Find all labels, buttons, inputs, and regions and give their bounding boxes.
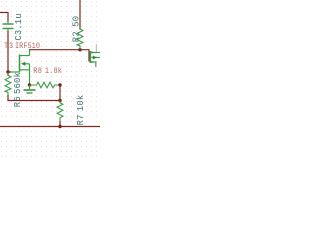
svg-text:50: 50 — [71, 16, 81, 27]
arrow pins of T4 — [91, 51, 97, 63]
wire R7 bottom — [59, 121, 61, 127]
wire bottom rail — [0, 126, 100, 128]
wire R6 bottom rail — [8, 95, 60, 101]
svg-text:R6: R6 — [13, 96, 23, 107]
wire top rail drain — [29, 50, 89, 62]
node bottom rail junction — [58, 125, 61, 128]
transistor T4 right — [90, 44, 100, 67]
wire gate — [8, 71, 20, 73]
label R6 560k — [13, 72, 23, 107]
node gate junction — [6, 70, 9, 73]
transistor T3 — [20, 50, 30, 85]
node R8 corner — [58, 83, 61, 86]
svg-text:R2: R2 — [71, 31, 81, 42]
svg-text:R8: R8 — [33, 68, 42, 77]
svg-text:C3: C3 — [14, 30, 24, 41]
svg-text:.1u: .1u — [14, 13, 24, 30]
pin dot R6 top — [7, 74, 9, 76]
resistor R8 — [30, 82, 59, 88]
svg-text:10k: 10k — [76, 95, 86, 112]
ground — [24, 85, 36, 93]
label T3 IRF510 — [4, 43, 40, 52]
capacitor C3 — [3, 22, 14, 32]
label R7 10k — [76, 95, 86, 126]
svg-text:R7: R7 — [76, 114, 86, 125]
svg-text:1.8k: 1.8k — [45, 68, 62, 77]
svg-text:T3: T3 — [4, 43, 14, 52]
wire R2 top — [79, 0, 81, 30]
resistor R6 — [5, 73, 11, 96]
svg-text:560k: 560k — [13, 72, 23, 94]
label R8 1.8k — [33, 68, 62, 77]
resistor R7 — [57, 101, 63, 122]
arrow of T3 — [21, 62, 25, 66]
label C3 .1u — [14, 13, 24, 40]
pin dot R2 top — [79, 28, 81, 30]
wire input top-left — [0, 13, 8, 22]
node R7 top junction — [58, 99, 61, 102]
resistor R2 — [77, 29, 83, 50]
node source junction — [28, 83, 31, 86]
label R2 50 — [71, 16, 81, 42]
wire C3 to gate node — [7, 31, 9, 72]
wire R8 down — [59, 85, 61, 101]
node drain junction — [78, 48, 81, 51]
